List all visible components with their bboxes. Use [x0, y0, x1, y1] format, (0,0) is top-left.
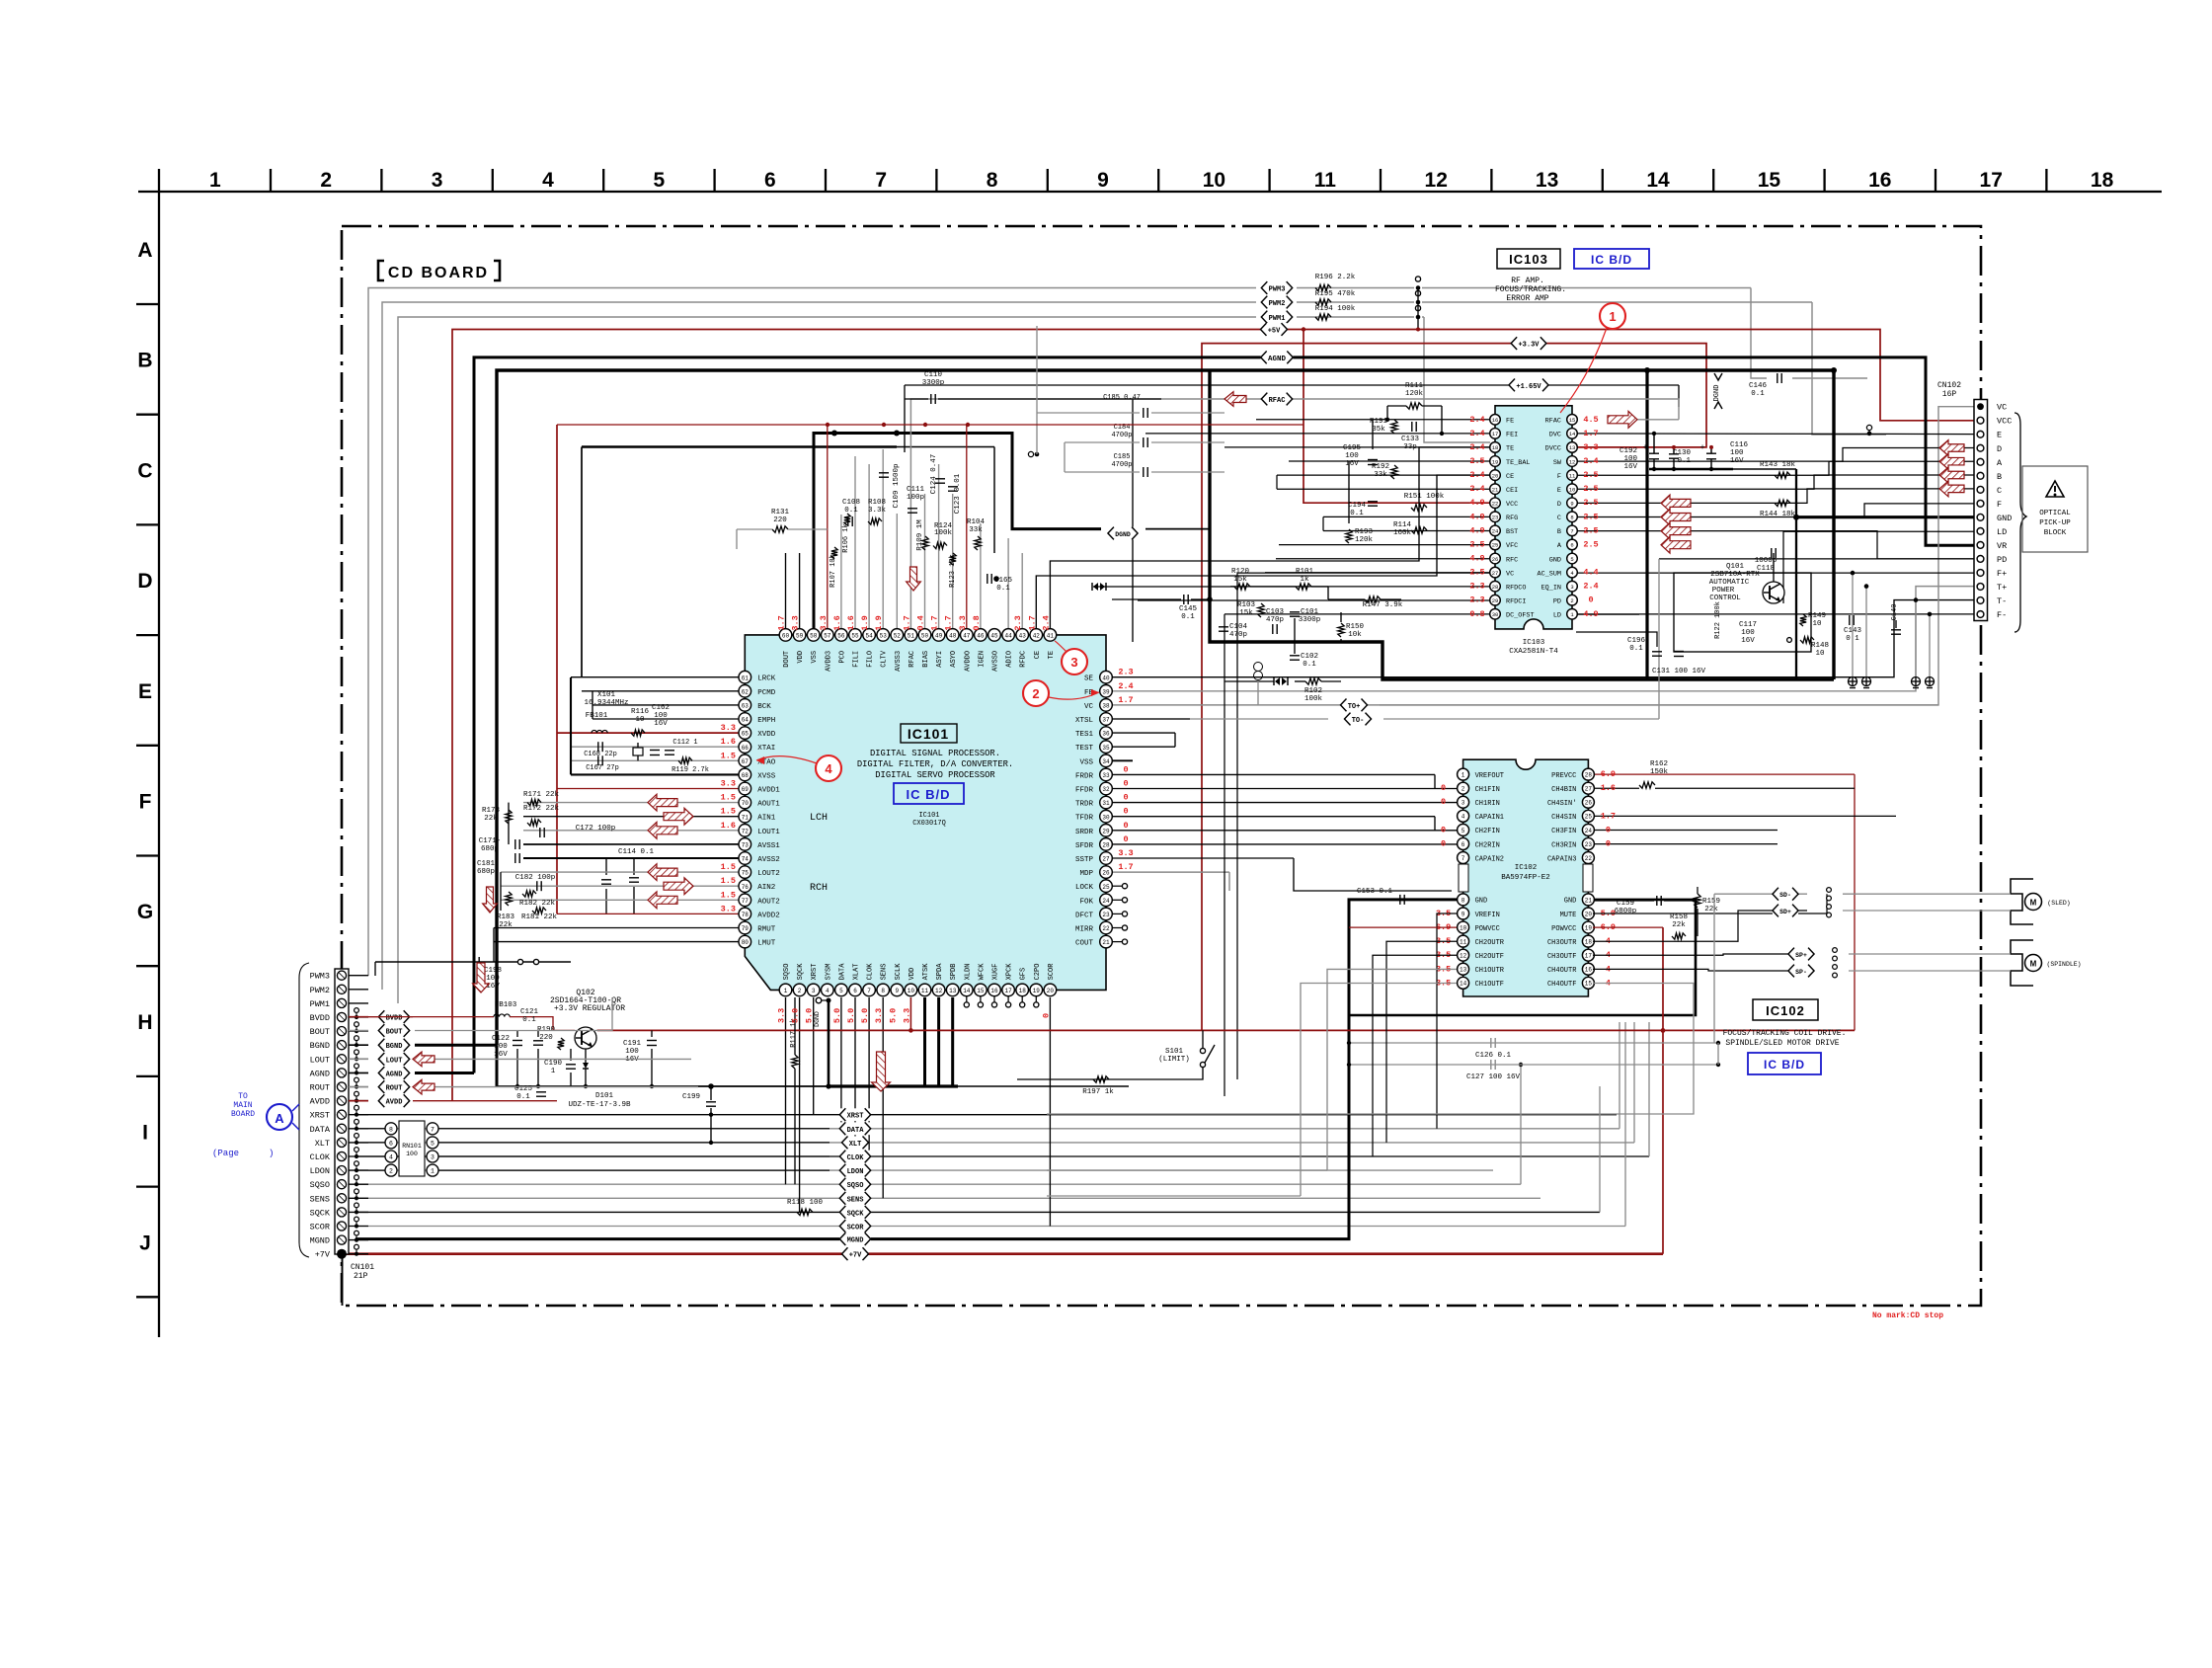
svg-text:GND: GND — [1564, 898, 1577, 906]
svg-text:AVSSO: AVSSO — [992, 651, 1000, 672]
svg-text:AVDD3: AVDD3 — [825, 651, 832, 672]
svg-text:PWM1: PWM1 — [310, 999, 330, 1009]
svg-text:7: 7 — [1570, 528, 1573, 535]
svg-text:1.6: 1.6 — [846, 615, 856, 630]
svg-text:470p: 470p — [1266, 616, 1284, 624]
svg-text:BGND: BGND — [310, 1041, 330, 1051]
svg-text:67: 67 — [742, 758, 750, 765]
svg-text:R197 1k: R197 1k — [1082, 1088, 1114, 1096]
svg-text:220: 220 — [773, 516, 787, 524]
svg-text:10: 10 — [1569, 486, 1576, 493]
svg-text:VC: VC — [1084, 703, 1094, 711]
svg-text:74: 74 — [742, 856, 750, 863]
svg-text:3.3k: 3.3k — [868, 507, 887, 515]
svg-text:5.0: 5.0 — [791, 1008, 801, 1023]
svg-text:BOUT: BOUT — [310, 1027, 330, 1037]
svg-text:DGND: DGND — [1713, 385, 1721, 402]
svg-text:1: 1 — [784, 988, 788, 994]
svg-text:1.5: 1.5 — [721, 876, 736, 886]
svg-text:DATA: DATA — [310, 1125, 331, 1135]
svg-text:SPDA: SPDA — [936, 963, 944, 981]
svg-text:BLOCK: BLOCK — [2044, 529, 2067, 537]
svg-text:IC101: IC101 — [908, 726, 949, 742]
svg-text:2: 2 — [320, 169, 332, 192]
svg-text:LRCK: LRCK — [757, 675, 776, 683]
svg-text:26: 26 — [1585, 800, 1593, 807]
svg-text:CN101: CN101 — [351, 1263, 374, 1272]
svg-text:LDON: LDON — [847, 1168, 864, 1176]
svg-text:AVSS1: AVSS1 — [757, 842, 780, 850]
svg-text:R159: R159 — [1702, 898, 1720, 906]
svg-text:17: 17 — [1585, 953, 1593, 960]
svg-text:A: A — [275, 1111, 284, 1126]
svg-text:R144 18k: R144 18k — [1760, 511, 1796, 518]
svg-text:SCOR: SCOR — [1048, 963, 1056, 981]
svg-text:C124 0.47: C124 0.47 — [930, 454, 938, 495]
svg-text:2.4: 2.4 — [1469, 415, 1484, 425]
svg-text:LCH: LCH — [810, 813, 828, 824]
svg-text:GFS: GFS — [1020, 968, 1028, 981]
svg-text:1.5: 1.5 — [721, 890, 736, 900]
svg-text:F: F — [1997, 500, 2002, 510]
svg-text:M: M — [2030, 899, 2037, 908]
svg-text:ERROR AMP: ERROR AMP — [1506, 294, 1548, 303]
svg-text:(SPINDLE): (SPINDLE) — [2046, 961, 2081, 968]
svg-text:MIRR: MIRR — [1075, 926, 1094, 934]
svg-text:SP-: SP- — [1795, 969, 1807, 976]
svg-text:470p: 470p — [1229, 631, 1247, 639]
svg-text:2.5: 2.5 — [1583, 525, 1598, 535]
svg-text:14: 14 — [963, 988, 971, 994]
svg-text:ASYO: ASYO — [950, 651, 958, 668]
svg-text:SENS: SENS — [310, 1194, 330, 1204]
svg-text:4700p: 4700p — [1111, 432, 1132, 439]
svg-text:R151 100k: R151 100k — [1404, 493, 1445, 501]
svg-text:SFDR: SFDR — [1075, 842, 1094, 850]
svg-text:T-: T- — [1997, 596, 2007, 606]
svg-text:AVDD: AVDD — [386, 1099, 403, 1107]
svg-text:R111: R111 — [1405, 382, 1424, 390]
svg-text:SQCK: SQCK — [310, 1208, 331, 1218]
svg-text:16.9344MHz: 16.9344MHz — [584, 699, 628, 707]
svg-text:POWVCC: POWVCC — [1475, 925, 1500, 933]
svg-text:4700p: 4700p — [1111, 461, 1132, 469]
svg-text:R102: R102 — [1304, 687, 1322, 695]
svg-text:R172 22k: R172 22k — [523, 805, 560, 813]
svg-text:0: 0 — [1606, 825, 1611, 834]
svg-text:FB103: FB103 — [495, 1001, 517, 1009]
svg-text:XRST: XRST — [811, 964, 819, 981]
svg-text:SQCK: SQCK — [797, 963, 805, 981]
svg-text:45: 45 — [990, 633, 998, 640]
svg-text:C190: C190 — [544, 1060, 563, 1068]
svg-text:EMPH: EMPH — [757, 717, 775, 725]
svg-text:1.7: 1.7 — [777, 615, 787, 630]
svg-text:+3.3V: +3.3V — [1518, 342, 1540, 350]
svg-text:TO+: TO+ — [1348, 703, 1361, 711]
svg-text:6: 6 — [853, 988, 857, 994]
svg-text:VDD: VDD — [908, 968, 916, 981]
svg-text:C196: C196 — [1627, 637, 1646, 645]
svg-text:DIGITAL SIGNAL PROCESSOR.: DIGITAL SIGNAL PROCESSOR. — [870, 749, 1000, 758]
svg-text:15: 15 — [1585, 981, 1593, 988]
svg-text:+: + — [1643, 443, 1648, 452]
svg-text:CD BOARD: CD BOARD — [388, 265, 489, 281]
svg-text:13: 13 — [1460, 967, 1467, 974]
svg-text:DIGITAL SERVO PROCESSOR: DIGITAL SERVO PROCESSOR — [875, 770, 995, 780]
svg-text:27: 27 — [1585, 786, 1593, 793]
svg-text:4: 4 — [389, 1154, 393, 1161]
svg-text:19: 19 — [1492, 458, 1499, 465]
svg-text:T+: T+ — [1997, 583, 2007, 593]
svg-text:R106 1k: R106 1k — [842, 523, 850, 552]
svg-text:IC B/D: IC B/D — [907, 787, 951, 802]
svg-text:C101: C101 — [1301, 608, 1319, 616]
svg-text:FOCUS/TRACKING COIL DRIVE.: FOCUS/TRACKING COIL DRIVE. — [1723, 1029, 1847, 1038]
svg-text:15: 15 — [977, 988, 985, 994]
svg-text:C168 22p: C168 22p — [584, 751, 617, 758]
svg-text:C195: C195 — [1343, 444, 1362, 452]
svg-text:RFG: RFG — [1506, 515, 1518, 522]
svg-text:SD+: SD+ — [1779, 909, 1791, 915]
svg-text:2.4: 2.4 — [1583, 582, 1598, 592]
svg-text:FRDR: FRDR — [1075, 772, 1094, 780]
svg-text:SRDR: SRDR — [1075, 829, 1094, 836]
svg-text:R114: R114 — [1393, 521, 1412, 529]
svg-text:18: 18 — [2091, 169, 2114, 192]
svg-text:2.5: 2.5 — [1583, 539, 1598, 549]
svg-text:PICK-UP: PICK-UP — [2039, 519, 2071, 527]
svg-text:R122 100k: R122 100k — [1714, 601, 1722, 639]
svg-text:+1.65V: +1.65V — [1516, 383, 1541, 391]
svg-text:SW: SW — [1553, 459, 1562, 467]
svg-text:31: 31 — [1102, 800, 1110, 807]
svg-text:4.9: 4.9 — [1583, 609, 1598, 619]
svg-text:LOUT2: LOUT2 — [757, 870, 780, 878]
svg-text:XVSS: XVSS — [757, 772, 776, 780]
svg-text:44: 44 — [1004, 633, 1012, 640]
svg-text:2.4: 2.4 — [1583, 456, 1598, 466]
svg-text:9: 9 — [1097, 169, 1109, 192]
svg-text:3: 3 — [431, 1154, 434, 1161]
svg-text:0.4: 0.4 — [916, 615, 926, 630]
svg-text:5.0: 5.0 — [846, 1008, 856, 1023]
svg-text:1.9: 1.9 — [860, 615, 870, 630]
svg-text:3: 3 — [432, 169, 443, 192]
svg-text:2.3: 2.3 — [1118, 668, 1133, 677]
svg-text:AUTOMATIC: AUTOMATIC — [1709, 579, 1750, 587]
svg-text:CEI: CEI — [1506, 487, 1518, 495]
svg-text:C110: C110 — [924, 371, 943, 379]
svg-text:AGND: AGND — [1268, 356, 1287, 363]
svg-text:14: 14 — [1569, 431, 1576, 437]
svg-text:19: 19 — [1033, 988, 1041, 994]
svg-text:LMUT: LMUT — [757, 940, 776, 948]
svg-text:OPTICAL: OPTICAL — [2039, 510, 2071, 517]
svg-text:22k: 22k — [484, 815, 498, 823]
svg-text:C192: C192 — [1619, 447, 1637, 455]
svg-text:28: 28 — [1585, 772, 1593, 779]
svg-text:FOK: FOK — [1079, 898, 1093, 906]
svg-text:25: 25 — [1492, 542, 1499, 549]
svg-text:21P: 21P — [354, 1272, 368, 1281]
svg-text:AIN1: AIN1 — [757, 815, 776, 823]
svg-text:C131 100 16V: C131 100 16V — [1652, 668, 1706, 675]
svg-text:23: 23 — [1585, 841, 1593, 848]
svg-text:37: 37 — [1102, 717, 1110, 724]
svg-text:C104: C104 — [1229, 623, 1248, 631]
svg-text:5.0: 5.0 — [805, 1008, 815, 1023]
svg-text:0: 0 — [1588, 596, 1593, 605]
svg-text:0.1: 0.1 — [516, 1093, 530, 1101]
svg-text:46: 46 — [977, 633, 985, 640]
svg-text:DGND: DGND — [814, 1011, 821, 1027]
svg-text:CAPAIN2: CAPAIN2 — [1475, 855, 1504, 863]
svg-text:TFDR: TFDR — [1075, 815, 1094, 823]
svg-text:XLAT: XLAT — [853, 964, 861, 981]
svg-text:LD: LD — [1997, 527, 2007, 537]
svg-text:100: 100 — [1741, 629, 1755, 637]
svg-text:3.3: 3.3 — [958, 615, 968, 630]
svg-text:G: G — [137, 901, 153, 923]
svg-text:79: 79 — [742, 925, 750, 932]
svg-text:34: 34 — [1102, 758, 1110, 765]
svg-text:100: 100 — [625, 1048, 639, 1056]
svg-text:CAPAIN1: CAPAIN1 — [1475, 814, 1504, 822]
svg-text:SPDB: SPDB — [950, 964, 958, 981]
svg-text:C126 0.1: C126 0.1 — [1475, 1052, 1512, 1060]
svg-text:Q101: Q101 — [1726, 563, 1745, 571]
svg-text:32: 32 — [1102, 786, 1110, 793]
svg-text:AIN2: AIN2 — [757, 884, 775, 892]
svg-text:R194 100k: R194 100k — [1315, 305, 1356, 313]
svg-text:R119 2.7k: R119 2.7k — [671, 766, 709, 774]
svg-text:SD-: SD- — [1779, 892, 1791, 899]
svg-text:TES1: TES1 — [1075, 731, 1094, 739]
svg-text:60: 60 — [782, 633, 790, 640]
svg-text:IC B/D: IC B/D — [1764, 1058, 1805, 1072]
svg-text:20: 20 — [1492, 472, 1499, 479]
svg-text:MAIN: MAIN — [233, 1101, 252, 1110]
svg-text:TE: TE — [1048, 651, 1056, 659]
svg-text:24: 24 — [1102, 898, 1110, 905]
svg-text:VC: VC — [1997, 403, 2007, 413]
svg-text:IC103: IC103 — [1523, 639, 1545, 647]
svg-text:C111: C111 — [907, 486, 925, 494]
svg-text:16V: 16V — [654, 720, 668, 728]
svg-text:0.1: 0.1 — [1751, 390, 1765, 398]
svg-text:SE: SE — [1084, 675, 1094, 683]
svg-text:POWER: POWER — [1712, 587, 1735, 595]
svg-text:F+: F+ — [1997, 569, 2007, 579]
svg-text:CH2FIN: CH2FIN — [1475, 828, 1500, 835]
svg-text:AVDD1: AVDD1 — [757, 787, 780, 795]
svg-text:2.4: 2.4 — [1469, 470, 1484, 480]
svg-text:CAPAIN3: CAPAIN3 — [1547, 855, 1576, 863]
svg-text:RFDCO: RFDCO — [1506, 584, 1526, 592]
svg-text:73: 73 — [742, 842, 750, 849]
svg-text:BCK: BCK — [757, 703, 771, 711]
svg-text:100: 100 — [1345, 452, 1359, 460]
svg-text:VCC: VCC — [1506, 501, 1518, 509]
svg-text:35: 35 — [1102, 745, 1110, 752]
svg-text:SSTP: SSTP — [1075, 856, 1094, 864]
svg-text:DIGITAL FILTER, D/A CONVERTER.: DIGITAL FILTER, D/A CONVERTER. — [857, 759, 1013, 769]
svg-text:2.3: 2.3 — [1469, 582, 1484, 592]
svg-text:PWM2: PWM2 — [1269, 300, 1286, 308]
svg-text:17: 17 — [1492, 431, 1499, 437]
svg-text:C172 100p: C172 100p — [576, 825, 616, 833]
svg-text:ROUT: ROUT — [310, 1083, 330, 1093]
svg-text:M: M — [2030, 960, 2037, 969]
svg-text:22k: 22k — [1704, 906, 1718, 913]
svg-text:1.6: 1.6 — [721, 737, 736, 747]
svg-text:0: 0 — [1441, 797, 1446, 807]
svg-text:22: 22 — [1102, 925, 1110, 932]
svg-text:+5V: +5V — [1268, 328, 1281, 336]
svg-text:H: H — [137, 1011, 152, 1034]
svg-text:24: 24 — [1585, 828, 1593, 834]
svg-text:C171-: C171- — [479, 837, 502, 845]
svg-text:I: I — [142, 1122, 148, 1145]
svg-text:C: C — [1557, 515, 1561, 522]
svg-text:LOCK: LOCK — [1075, 884, 1094, 892]
svg-text:COUT: COUT — [1075, 940, 1094, 948]
svg-text:D: D — [137, 570, 152, 593]
svg-text:R149: R149 — [1808, 612, 1826, 620]
svg-text:7: 7 — [1461, 855, 1465, 862]
svg-text:3300p: 3300p — [1299, 616, 1321, 624]
svg-text:3.3: 3.3 — [721, 723, 736, 733]
svg-text:2.4: 2.4 — [1118, 681, 1133, 691]
svg-text:2.5: 2.5 — [1469, 568, 1484, 578]
svg-text:XLT: XLT — [315, 1139, 330, 1149]
svg-text:21: 21 — [1492, 486, 1499, 493]
svg-text:40: 40 — [1102, 675, 1110, 681]
svg-text:13: 13 — [1569, 444, 1576, 451]
svg-text:R131: R131 — [771, 509, 790, 516]
svg-text:IC103: IC103 — [1509, 252, 1548, 267]
svg-text:CLOK: CLOK — [847, 1154, 865, 1162]
svg-text:B: B — [1557, 528, 1561, 536]
svg-text:0.1: 0.1 — [996, 585, 1010, 593]
svg-text:24: 24 — [1492, 528, 1499, 535]
svg-text:AVSS2: AVSS2 — [757, 856, 780, 864]
svg-text:F: F — [1557, 473, 1561, 481]
svg-text:8: 8 — [881, 988, 885, 994]
svg-text:POWVCC: POWVCC — [1551, 925, 1576, 933]
svg-text:13: 13 — [949, 988, 957, 994]
svg-text:BVDD: BVDD — [310, 1013, 330, 1023]
svg-text:DVC: DVC — [1549, 432, 1561, 439]
svg-text:AVDDO: AVDDO — [964, 651, 972, 672]
svg-text:51: 51 — [908, 633, 915, 640]
svg-text:2.5: 2.5 — [1583, 512, 1598, 521]
svg-text:R101: R101 — [1296, 568, 1314, 576]
svg-text:CLOK: CLOK — [310, 1152, 331, 1162]
svg-text:6: 6 — [1461, 841, 1465, 848]
svg-text:XTAI: XTAI — [757, 745, 775, 753]
svg-text:16V: 16V — [1730, 457, 1744, 465]
svg-text:): ) — [269, 1149, 274, 1158]
svg-text:15k: 15k — [1233, 576, 1247, 584]
svg-text:AGND: AGND — [386, 1072, 403, 1079]
svg-text:X101: X101 — [597, 691, 616, 699]
svg-text:SP+: SP+ — [1795, 952, 1807, 959]
svg-text:C146: C146 — [1749, 382, 1768, 390]
svg-text:78: 78 — [742, 912, 750, 918]
svg-text:0: 0 — [1441, 783, 1446, 793]
svg-text:PWM2: PWM2 — [310, 986, 330, 995]
svg-text:71: 71 — [742, 814, 750, 821]
svg-text:+7V: +7V — [315, 1250, 331, 1260]
svg-text:C112 1: C112 1 — [672, 739, 697, 747]
svg-text:LDON: LDON — [310, 1166, 330, 1176]
svg-text:2: 2 — [1032, 686, 1039, 701]
svg-text:LOUT: LOUT — [386, 1057, 403, 1065]
svg-text:0: 0 — [1123, 793, 1128, 803]
svg-text:RFAC: RFAC — [1545, 418, 1561, 426]
svg-text:77: 77 — [742, 898, 750, 905]
svg-text:3300p: 3300p — [922, 379, 945, 387]
svg-text:50: 50 — [921, 633, 929, 640]
svg-text:2.5: 2.5 — [1469, 539, 1484, 549]
svg-text:54: 54 — [865, 633, 873, 640]
svg-text:IGEN: IGEN — [978, 651, 986, 668]
svg-text:56: 56 — [837, 633, 845, 640]
svg-text:6.9: 6.9 — [1601, 769, 1616, 779]
svg-text:1.7: 1.7 — [930, 615, 940, 630]
svg-text:1.5: 1.5 — [721, 807, 736, 817]
svg-text:TEST: TEST — [1075, 745, 1094, 753]
svg-text:1.7: 1.7 — [1118, 862, 1133, 872]
svg-text:R162: R162 — [1650, 760, 1668, 768]
svg-text:0.1: 0.1 — [1629, 645, 1643, 653]
svg-text:C140: C140 — [1891, 604, 1899, 621]
svg-text:2SB710A-RTX: 2SB710A-RTX — [1710, 571, 1760, 579]
svg-text:R107 10k: R107 10k — [829, 554, 837, 588]
svg-text:16: 16 — [990, 988, 998, 994]
svg-text:6: 6 — [389, 1140, 393, 1147]
svg-text:15: 15 — [1758, 169, 1781, 192]
svg-text:17: 17 — [1980, 169, 2003, 192]
svg-text:FFDR: FFDR — [1075, 787, 1094, 795]
svg-text:CH1FIN: CH1FIN — [1475, 786, 1500, 794]
svg-text:100: 100 — [1730, 449, 1744, 457]
svg-text:76: 76 — [742, 884, 750, 891]
svg-text:70: 70 — [742, 800, 750, 807]
svg-text:SENS: SENS — [847, 1196, 864, 1204]
svg-text:PD: PD — [1997, 555, 2007, 565]
svg-text:C117: C117 — [1739, 621, 1757, 629]
svg-text:RMUT: RMUT — [757, 926, 776, 934]
svg-text:(LIMIT): (LIMIT) — [1158, 1056, 1190, 1064]
svg-text:R118 100: R118 100 — [787, 1199, 824, 1207]
svg-text:2.5: 2.5 — [1469, 456, 1484, 466]
svg-text:22: 22 — [1585, 855, 1593, 862]
svg-text:R148: R148 — [1811, 642, 1829, 650]
svg-text:1.7: 1.7 — [944, 615, 954, 630]
svg-text:2.4: 2.4 — [1469, 484, 1484, 494]
svg-text:2.3: 2.3 — [1013, 615, 1023, 630]
svg-text:CE: CE — [1506, 473, 1514, 481]
svg-text:XRST: XRST — [847, 1113, 864, 1121]
svg-text:7: 7 — [867, 988, 871, 994]
svg-text:3.3: 3.3 — [902, 1008, 911, 1023]
svg-text:1.6: 1.6 — [832, 615, 842, 630]
svg-text:2: 2 — [389, 1168, 393, 1175]
svg-text:PCO: PCO — [838, 651, 846, 664]
